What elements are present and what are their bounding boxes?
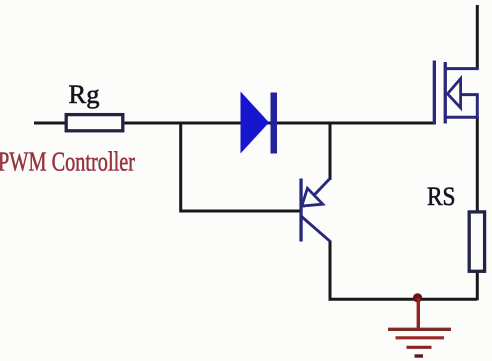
wire resistor RS to ground rail	[476, 272, 479, 300]
label PWM Controller	[0, 147, 135, 177]
wire transistor collector down to ground rail	[329, 241, 332, 301]
diode D1 anode triangle	[241, 92, 270, 154]
MOSFET Q2 body stub	[448, 93, 479, 96]
label Rg	[69, 80, 100, 109]
MOSFET Q2 gate bar	[433, 61, 436, 125]
resistor RS	[469, 212, 484, 271]
wire junction down-left to transistor base	[181, 123, 300, 211]
resistor Rg	[66, 115, 123, 131]
wire MOSFET source down to resistor RS	[476, 117, 479, 211]
MOSFET Q2 channel bar	[444, 62, 447, 124]
label RS	[427, 182, 456, 211]
junction dot at ground tap	[413, 293, 422, 302]
MOSFET Q2 body arrow	[448, 79, 461, 108]
transistor Q1 base bar	[299, 179, 302, 242]
MOSFET Q2 drain stub	[445, 67, 479, 70]
svg-text:Rg: Rg	[69, 80, 100, 109]
wire input from PWM controller	[34, 122, 66, 125]
wire MOSFET drain up to supply	[476, 5, 479, 70]
wire resistor Rg to MOSFET gate	[122, 122, 436, 125]
diode D1 cathode bar	[271, 93, 278, 154]
ground	[388, 298, 451, 356]
wire junction down to transistor emitter	[329, 123, 332, 180]
wire bottom ground rail	[329, 298, 478, 301]
transistor Q1 emitter diagonal	[303, 178, 330, 207]
MOSFET Q2 source bracket	[445, 95, 479, 118]
svg-text:RS: RS	[427, 182, 456, 211]
transistor Q1 collector diagonal	[302, 217, 331, 242]
transistor Q1 emitter arrowhead	[302, 188, 323, 206]
svg-text:PWM Controller: PWM Controller	[0, 147, 135, 177]
